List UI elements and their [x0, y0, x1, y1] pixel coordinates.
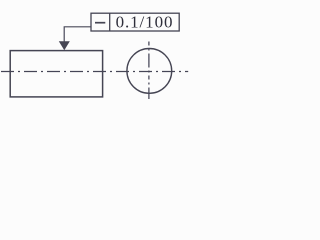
cylinder side view [10, 51, 102, 97]
svg-text:0.1/100: 0.1/100 [116, 13, 174, 32]
circle end view [127, 49, 172, 94]
vertical centerline [148, 42, 150, 100]
straightness symbol [95, 22, 105, 24]
leader line [64, 27, 91, 42]
feature control frame [91, 13, 179, 31]
frame cell divider [109, 13, 111, 31]
leader arrowhead [59, 41, 70, 50]
horizontal centerline [1, 71, 188, 73]
